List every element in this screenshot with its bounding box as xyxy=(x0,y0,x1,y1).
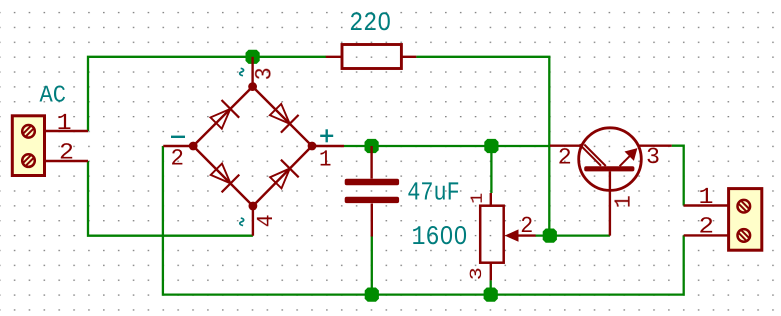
pin Q1-3 xyxy=(638,144,672,146)
zero counter patches xyxy=(444,232,449,237)
resistor R1 body xyxy=(342,45,401,69)
svg-text:47uF: 47uF xyxy=(407,177,460,207)
pin C1 bottom xyxy=(371,204,373,237)
pin R1 left xyxy=(326,56,342,58)
svg-text:AC: AC xyxy=(40,83,67,110)
wire AC pin2 to bridge pin4 xyxy=(88,161,253,236)
svg-text:2: 2 xyxy=(520,213,533,239)
screw terminal X2-1 xyxy=(738,200,751,213)
vertex node right xyxy=(308,142,317,151)
junction node cap bottom xyxy=(365,288,379,302)
svg-text:1: 1 xyxy=(319,146,332,172)
pin Q1-2 xyxy=(550,144,582,146)
junction node pot bottom xyxy=(484,288,498,302)
pin B1-4 bottom xyxy=(252,206,254,236)
svg-text:3: 3 xyxy=(251,67,277,80)
svg-text:2: 2 xyxy=(699,214,715,240)
pin B1-2 left xyxy=(163,145,193,147)
screw terminal X1-2 xyxy=(22,154,35,167)
label plus xyxy=(320,129,333,142)
wire pot top feed from main rail xyxy=(490,146,492,193)
screw terminal X2-2 xyxy=(738,229,751,242)
zero counter patch xyxy=(382,19,387,24)
pin R2-3 bottom xyxy=(490,263,492,281)
wiper arrowhead xyxy=(505,229,519,241)
wire cap bottom lead to bottom rail xyxy=(371,236,373,295)
svg-text:2: 2 xyxy=(59,139,74,165)
label AC wave bottom xyxy=(240,218,244,225)
junction node pot top xyxy=(484,139,498,153)
junction node cap top xyxy=(365,139,379,153)
wire pot pin3 to bottom rail xyxy=(490,280,492,294)
potentiometer R2 body xyxy=(480,206,504,263)
transistor emitter with arrow xyxy=(620,153,633,166)
wire resistor right pin to wiper column xyxy=(416,57,549,236)
svg-text:4: 4 xyxy=(253,214,279,227)
transistor base bar xyxy=(584,166,634,171)
label minus xyxy=(171,136,185,138)
wire main rail bridge+ to transistor pin2 xyxy=(344,145,550,147)
screw terminal X1-1 xyxy=(22,125,35,138)
capacitor C1 plate top xyxy=(345,179,399,185)
bridge rectifier B1 diamond outline xyxy=(193,87,312,206)
junction node pot wiper xyxy=(543,229,557,243)
svg-text:3: 3 xyxy=(646,144,660,170)
svg-text:1600: 1600 xyxy=(412,223,468,253)
svg-text:2: 2 xyxy=(558,145,572,171)
pin X1-2 xyxy=(45,160,89,162)
pin R2-1 top xyxy=(490,193,492,206)
svg-text:1: 1 xyxy=(611,195,637,208)
pin X1-1 xyxy=(45,130,89,132)
pin X2-2 xyxy=(684,234,729,236)
junction node top rail / bridge pin3 xyxy=(246,50,260,64)
pin B1-3 top xyxy=(251,57,253,87)
wire top junction to resistor left pin xyxy=(253,56,326,58)
vertex node bottom xyxy=(249,202,258,211)
vertex node top xyxy=(248,82,257,91)
connector X2 output body xyxy=(729,189,762,251)
svg-text:1: 1 xyxy=(469,193,488,204)
diode D-TR xyxy=(270,104,299,133)
diode D-LB xyxy=(211,164,240,193)
wire wiper junction to transistor base xyxy=(535,234,610,236)
pin X2-1 xyxy=(684,204,729,206)
connector X1 AC input body xyxy=(12,116,44,176)
wire bridge pin2 down and bottom rail to output pin2 xyxy=(163,146,684,295)
pin B1-1 right xyxy=(312,145,344,147)
transistor base line xyxy=(609,171,611,235)
label AC wave top xyxy=(240,68,244,75)
pin C1 top xyxy=(370,146,372,179)
wire transistor pin3 to output pin1 xyxy=(672,146,684,206)
transistor collector double line xyxy=(580,144,606,166)
vertex node left xyxy=(189,142,198,151)
pin R2-2 wiper line xyxy=(514,234,536,236)
diode D-LT xyxy=(211,100,240,129)
pin R1 right xyxy=(401,56,416,58)
svg-text:1: 1 xyxy=(57,110,72,136)
wire AC pin1 to top rail xyxy=(88,57,253,131)
svg-text:1: 1 xyxy=(699,184,714,210)
svg-text:3: 3 xyxy=(468,267,487,280)
capacitor C1 plate bottom xyxy=(345,197,399,203)
diode D-BR xyxy=(270,160,299,189)
svg-text:2: 2 xyxy=(171,145,185,171)
transistor Q1 circle xyxy=(579,128,642,191)
